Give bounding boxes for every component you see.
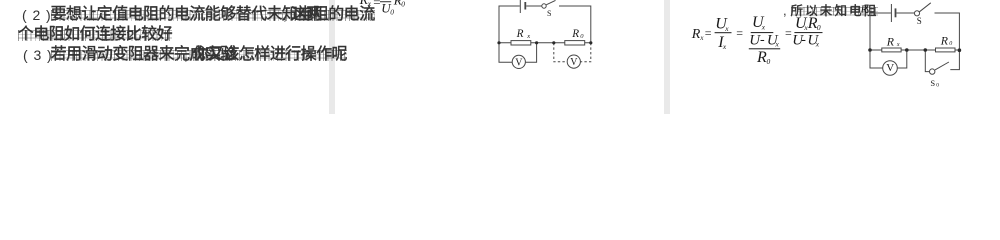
S0 branch left wire: [925, 50, 929, 72]
svg-text:V: V: [886, 62, 894, 74]
svg-text:V: V: [515, 57, 523, 68]
separator 2: [664, 0, 670, 114]
svg-text:0: 0: [401, 0, 405, 8]
resistor R0 box M: [565, 41, 585, 45]
formula3 frac1 bar: [715, 32, 732, 33]
resistor Rx box R: [882, 48, 901, 52]
panel1 line2 cjk: [18, 27, 172, 43]
panel1 line3 (3): [23, 48, 58, 62]
svg-text:-: -: [801, 32, 806, 47]
panel1 line1 cjk part2: [291, 7, 322, 23]
wire M top-left: [499, 6, 520, 43]
panel1 line2 qmark: [126, 28, 134, 42]
svg-text:V: V: [570, 57, 578, 68]
svg-text:0: 0: [767, 57, 771, 66]
svg-text:R: R: [756, 49, 767, 66]
svg-text:=: =: [785, 26, 792, 40]
wire M battery to switch: [526, 5, 542, 7]
battery R short plate: [895, 8, 897, 17]
switch R pivot circle: [914, 11, 919, 16]
voltmeter M2 circle: [567, 55, 580, 68]
svg-text:0: 0: [936, 82, 939, 88]
battery M long plate: [519, 0, 521, 13]
resistor Rx box M: [511, 41, 531, 45]
battery R long plate: [890, 4, 892, 22]
junction dots R: [868, 48, 872, 52]
panel1 line1 cjk part1: [51, 7, 375, 23]
formula3 frac2 sub bar: [749, 48, 780, 49]
switch M pivot circle: [542, 4, 546, 8]
svg-text:x: x: [699, 34, 704, 42]
formula3 frac3 bar: [794, 32, 822, 33]
formula3 frac2 main bar: [751, 32, 774, 33]
panel3 top cjk: [791, 5, 879, 18]
S0 blade: [935, 62, 949, 70]
S0 pivot circle: [930, 69, 935, 74]
switch R blade: [919, 3, 930, 12]
svg-text:-: -: [760, 33, 765, 48]
voltmeter M1 right wire: [525, 43, 536, 62]
voltmeter R right wire: [897, 50, 907, 68]
voltmeter M1 circle: [512, 55, 525, 68]
voltmeter M2 left dashed wire: [554, 43, 568, 62]
svg-text:x: x: [722, 42, 727, 51]
svg-text:x: x: [815, 39, 820, 48]
svg-text:R: R: [940, 34, 949, 48]
voltmeter R circle: [883, 61, 898, 76]
panel3 top comma: [783, 4, 787, 17]
svg-text:R: R: [691, 27, 701, 42]
battery M short plate: [524, 2, 526, 10]
svg-text:0: 0: [580, 33, 584, 40]
formula2 fraction bar: [380, 0, 391, 3]
panel1 line3 cjk part1: [51, 47, 236, 63]
svg-text:=: =: [373, 0, 380, 10]
svg-text:x: x: [761, 23, 766, 32]
wire R top-left: [870, 13, 891, 50]
wire R battery to switch: [896, 12, 914, 14]
wire R switch to top-right: [935, 13, 960, 50]
svg-text:S: S: [547, 9, 551, 18]
svg-text:R: R: [860, 5, 868, 16]
wire M switch to top-right: [559, 6, 591, 43]
voltmeter M2 right dashed wire: [580, 43, 590, 62]
panel1 line1 (2): [22, 8, 57, 22]
svg-text:R: R: [571, 28, 579, 40]
svg-text:x: x: [367, 0, 372, 8]
junction dots M: [497, 41, 500, 44]
svg-text:0: 0: [949, 41, 952, 47]
svg-text:x: x: [724, 24, 729, 33]
panel1 line3 qmark: [303, 48, 311, 62]
voltmeter R left wire: [870, 50, 883, 68]
svg-text:0: 0: [390, 8, 394, 17]
svg-text:S: S: [930, 78, 935, 88]
svg-text:=: =: [736, 26, 743, 40]
S0 branch right wire: [950, 50, 959, 70]
panel1 line3 cjk part2: [193, 47, 347, 63]
svg-text:x: x: [526, 33, 530, 40]
voltmeter M1 left wire: [499, 43, 512, 62]
separator 1: [329, 0, 335, 114]
panel1 line1 comma: [283, 8, 287, 22]
panel1 line3 comma: [184, 48, 188, 62]
main wire R: [870, 49, 959, 51]
switch M blade: [546, 0, 555, 4]
resistor R0 box R: [936, 48, 956, 52]
svg-text:=: =: [705, 26, 712, 40]
svg-text:R: R: [516, 28, 524, 40]
svg-text:S: S: [917, 16, 922, 26]
svg-text:x: x: [896, 42, 900, 48]
main wire M: [499, 42, 591, 44]
svg-text:R: R: [886, 35, 895, 49]
svg-text:x: x: [775, 40, 780, 49]
svg-text:0: 0: [817, 23, 821, 32]
